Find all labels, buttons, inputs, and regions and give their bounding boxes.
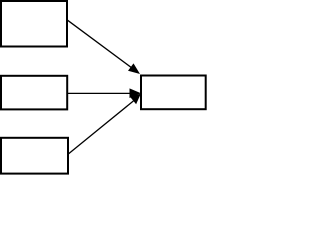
arrowhead: middle arrow into right box: [130, 88, 142, 98]
wire: line from middle-left box to right box: [68, 92, 131, 94]
wire: line from top-left box to right box: [67, 20, 132, 68]
wire: line from bottom-left box to right box: [68, 101, 134, 154]
arrowhead: top arrow into right box: [128, 63, 140, 74]
block: right box: [141, 76, 206, 110]
block: top-left box: [1, 1, 67, 47]
block: bottom-left box: [1, 138, 68, 174]
block: middle-left box: [1, 76, 67, 110]
arrowhead: bottom arrow into right box: [130, 94, 141, 104]
